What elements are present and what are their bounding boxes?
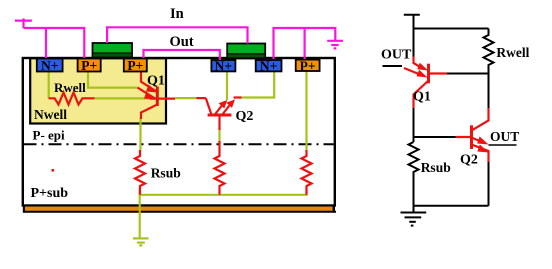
svg-text:N+: N+ xyxy=(41,58,58,73)
svg-text:Rsub: Rsub xyxy=(421,160,451,175)
svg-text:Q1: Q1 xyxy=(413,90,431,105)
svg-text:Out: Out xyxy=(170,34,194,50)
svg-text:Rwell: Rwell xyxy=(54,80,86,95)
svg-text:OUT: OUT xyxy=(490,129,519,144)
svg-text:P- epi: P- epi xyxy=(33,128,66,143)
svg-text:P+: P+ xyxy=(127,58,143,73)
svg-text:In: In xyxy=(170,6,184,22)
svg-text:N+: N+ xyxy=(215,59,232,74)
svg-text:Rsub: Rsub xyxy=(151,166,181,181)
svg-text:P+: P+ xyxy=(300,59,316,74)
svg-text:P+sub: P+sub xyxy=(31,186,69,201)
svg-text:Rwell: Rwell xyxy=(496,45,529,60)
svg-text:N+: N+ xyxy=(260,59,277,74)
svg-text:Nwell: Nwell xyxy=(34,107,67,122)
svg-text:Q2: Q2 xyxy=(460,152,478,167)
svg-text:Q1: Q1 xyxy=(147,74,165,89)
svg-text:P+: P+ xyxy=(81,58,97,73)
svg-text:Q2: Q2 xyxy=(236,109,254,124)
svg-text:OUT: OUT xyxy=(381,48,412,63)
